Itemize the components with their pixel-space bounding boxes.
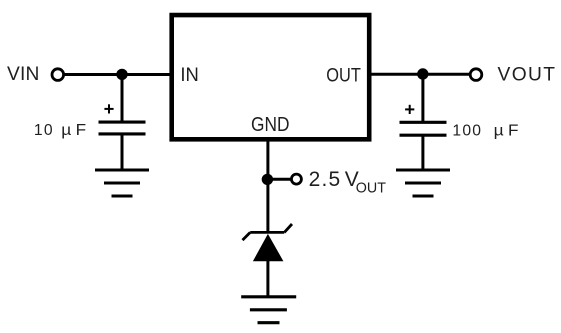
regulator box: [172, 15, 370, 139]
value label 100 uF: [452, 122, 518, 139]
wire junction to output capacitor: [421, 74, 424, 122]
svg-text:100µF: 100µF: [452, 122, 518, 139]
wire GND pin down to zener: [266, 140, 269, 233]
svg-text:VIN: VIN: [7, 64, 40, 85]
wire junction to input capacitor: [121, 74, 124, 121]
wire zener to ground: [266, 260, 269, 297]
ground input side: [95, 170, 149, 196]
svg-text:2.5V: 2.5V: [309, 168, 359, 191]
ground zener side: [241, 297, 296, 323]
wire input capacitor to ground: [121, 134, 124, 170]
wire junction to 2.5V terminal: [267, 178, 291, 181]
svg-text:10µF: 10µF: [34, 122, 86, 139]
ground output side: [396, 170, 450, 196]
svg-text:OUT: OUT: [326, 64, 361, 86]
junction input node: [116, 69, 127, 80]
node 2.5 V_OUT terminal: [291, 168, 386, 196]
pin label IN: [180, 64, 198, 85]
value label 10 uF: [34, 122, 86, 139]
capacitor C-out 100uF: [400, 105, 447, 135]
capacitor C-in 10uF: [99, 104, 146, 134]
svg-text:VOUT: VOUT: [498, 64, 557, 85]
junction output node: [417, 68, 428, 79]
pin label OUT: [326, 64, 361, 86]
node VIN terminal: [7, 64, 64, 85]
junction GND net: [262, 174, 273, 185]
wire VIN to IN pin: [64, 73, 171, 76]
wire output capacitor to ground: [421, 135, 424, 170]
pin label GND: [251, 114, 289, 137]
svg-text:GND: GND: [251, 114, 289, 137]
zener diode shunt reference: [243, 224, 293, 261]
wire OUT pin to VOUT: [370, 73, 470, 76]
svg-text:OUT: OUT: [356, 180, 386, 196]
node VOUT terminal: [470, 64, 556, 85]
svg-text:IN: IN: [180, 64, 198, 85]
